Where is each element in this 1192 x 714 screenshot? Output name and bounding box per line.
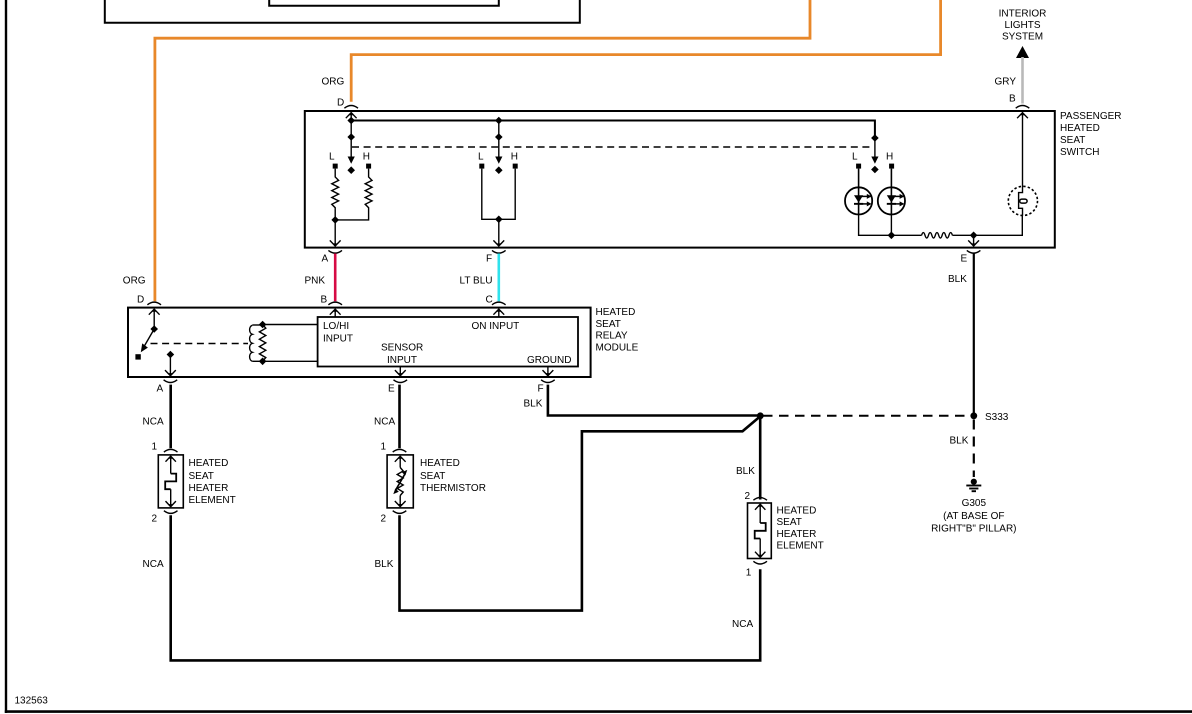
pin D entry arrow [346, 113, 357, 119]
relay switch common diamond [150, 325, 158, 333]
svg-text:HEATED: HEATED [777, 505, 817, 516]
svg-text:ORG: ORG [123, 276, 146, 287]
svg-text:BLK: BLK [736, 466, 755, 477]
connector arc pin B switch [1016, 106, 1030, 109]
wire NCA relay A to element1 [169, 385, 172, 449]
svg-text:B: B [321, 295, 328, 306]
splice S333 dot [970, 412, 977, 419]
svg-text:BLK: BLK [524, 399, 543, 410]
wire BLK thermistor to junction [400, 416, 761, 610]
svg-text:L: L [852, 152, 858, 163]
fuse block inner box (cut off at top) [269, 0, 499, 6]
connector arc pin A relay [164, 380, 178, 383]
svg-text:H: H [886, 152, 893, 163]
svg-text:HEATED: HEATED [596, 307, 636, 318]
wire NCA relay E to thermistor [398, 385, 401, 449]
LED indicator HI [878, 187, 905, 214]
internal bus wire [351, 121, 875, 139]
pin C relay entry arrow [493, 309, 504, 315]
relay switch blade [144, 329, 154, 347]
connector arc pin E relay [394, 380, 408, 383]
svg-text:G305: G305 [962, 498, 987, 509]
fuse block outer box (cut off at top) [105, 0, 580, 23]
connector arc pin C relay [492, 302, 506, 305]
resistor LO switch1 [332, 169, 339, 220]
svg-text:2: 2 [381, 514, 387, 525]
svg-text:L: L [478, 152, 484, 163]
svg-text:SENSOR: SENSOR [381, 343, 423, 354]
svg-text:SEAT: SEAT [189, 471, 214, 482]
junction diamond bus 1 [347, 117, 355, 125]
passenger heated seat switch box [305, 111, 1055, 248]
svg-text:1: 1 [152, 442, 158, 453]
switch 3 wiper [874, 121, 876, 162]
lamp to pin B wire + arrow [1022, 113, 1024, 187]
pin F relay exit arrow [547, 367, 549, 376]
thermistor internal symbol [395, 456, 406, 462]
svg-text:PNK: PNK [305, 276, 326, 287]
switch 1 wiper [350, 121, 352, 162]
svg-text:SEAT: SEAT [596, 319, 621, 330]
svg-text:RIGHT"B" PILLAR): RIGHT"B" PILLAR) [931, 523, 1016, 534]
switch3 join wires [859, 215, 922, 236]
switch2 L/H join wires [482, 169, 515, 220]
connector arc element2 pin2 [753, 498, 767, 501]
svg-text:NCA: NCA [374, 417, 395, 428]
svg-text:ELEMENT: ELEMENT [777, 541, 824, 552]
relay contact to pin A [167, 351, 175, 359]
connector arc pin D relay [147, 302, 161, 305]
svg-text:NCA: NCA [143, 417, 164, 428]
connector arc pin A switch [328, 250, 342, 253]
svg-text:SEAT: SEAT [777, 517, 802, 528]
svg-text:D: D [337, 98, 344, 109]
svg-text:BLK: BLK [948, 274, 967, 285]
wire ORG from fuse block to relay module pin D [155, 0, 810, 301]
contact H switch2 [513, 164, 518, 169]
contact L switch1 [333, 164, 338, 169]
switch1 output wire + exit arrow [334, 220, 336, 246]
wire GRY [1021, 57, 1024, 104]
svg-text:GROUND: GROUND [527, 355, 571, 366]
svg-text:1: 1 [381, 442, 387, 453]
contact H switch1 [366, 164, 371, 169]
svg-text:LO/HI: LO/HI [323, 321, 349, 332]
relay dashed link [151, 343, 249, 345]
resistor switch3 [922, 233, 953, 238]
svg-text:LT BLU: LT BLU [460, 276, 493, 287]
svg-text:INPUT: INPUT [387, 355, 417, 366]
svg-text:GRY: GRY [995, 77, 1017, 88]
heated seat relay module outer box [128, 308, 591, 377]
svg-text:LIGHTS: LIGHTS [1004, 20, 1040, 31]
connector arc pin F relay [541, 380, 555, 383]
resistor HI switch1 [335, 169, 372, 220]
svg-text:F: F [538, 384, 544, 395]
relay coil [250, 325, 253, 361]
wire NCA element1 to element2 [171, 515, 761, 660]
svg-text:INPUT: INPUT [323, 334, 353, 345]
svg-text:THERMISTOR: THERMISTOR [420, 483, 486, 494]
svg-text:2: 2 [152, 514, 158, 525]
pin D relay entry arrow [149, 309, 160, 315]
connector arc thermistor pin2 [393, 511, 407, 514]
svg-text:H: H [363, 152, 370, 163]
switch 2 wiper [498, 121, 500, 162]
element2 internal symbol [755, 504, 765, 510]
junction diamond switch3 [888, 232, 896, 240]
pin B relay entry arrow [330, 309, 341, 315]
ground G305 symbol [971, 479, 977, 485]
LED indicator LO [845, 187, 872, 214]
pin E relay exit arrow [399, 367, 401, 376]
junction dot left [757, 412, 764, 419]
svg-text:ELEMENT: ELEMENT [189, 495, 236, 506]
svg-text:BLK: BLK [950, 436, 969, 447]
contact L switch2 [479, 164, 484, 169]
svg-text:SWITCH: SWITCH [1060, 147, 1099, 158]
coil top diamond + wire to inner box [259, 321, 267, 329]
connector arc thermistor pin1 [393, 449, 407, 452]
svg-text:PASSENGER: PASSENGER [1060, 111, 1122, 122]
svg-text:NCA: NCA [732, 619, 753, 630]
junction diamond switch1 out [331, 216, 339, 224]
dashed wire junction to S333 [763, 415, 970, 417]
illumination lamp [1008, 186, 1037, 215]
connector arc element1 pin2 [164, 511, 178, 514]
svg-text:E: E [961, 254, 968, 265]
svg-text:MODULE: MODULE [596, 343, 639, 354]
junction diamond pin E [970, 232, 978, 240]
svg-text:L: L [329, 152, 335, 163]
heated seat heater element 2 box [748, 503, 772, 559]
wire PNK [334, 254, 337, 302]
connector arc pin B relay [328, 302, 342, 305]
svg-text:SEAT: SEAT [1060, 135, 1085, 146]
junction diamond switch2 out [495, 216, 503, 224]
wire ORG from fuse block to switch pin D [351, 0, 940, 102]
svg-text:BLK: BLK [375, 559, 394, 570]
connector arc element2 pin1 [753, 561, 767, 564]
svg-text:F: F [486, 254, 492, 265]
coil bottom diamond + wire to inner box [259, 358, 267, 366]
svg-text:NCA: NCA [143, 559, 164, 570]
connector arc pin D switch [344, 106, 358, 109]
svg-text:HEATED: HEATED [189, 458, 229, 469]
dashed wire BLK S333 to ground [973, 420, 975, 478]
connector arc pin E switch [967, 250, 981, 253]
svg-text:HEATER: HEATER [189, 483, 229, 494]
connector arc pin F switch [492, 250, 506, 253]
svg-text:SEAT: SEAT [420, 471, 445, 482]
svg-text:SYSTEM: SYSTEM [1002, 32, 1043, 43]
element1 internal symbol [166, 456, 176, 462]
junction diamond bus 2 [495, 117, 503, 125]
dashed switch link [352, 146, 872, 148]
svg-text:S333: S333 [985, 412, 1009, 423]
switch2 output wire + exit arrow [498, 219, 500, 246]
wire LT BLU [497, 254, 500, 302]
heated seat heater element 1 box [158, 455, 183, 508]
svg-text:1: 1 [746, 567, 752, 578]
svg-text:2: 2 [745, 491, 751, 502]
svg-text:D: D [137, 295, 144, 306]
svg-text:INTERIOR: INTERIOR [999, 9, 1047, 20]
svg-text:E: E [388, 384, 395, 395]
svg-text:HEATED: HEATED [420, 458, 460, 469]
svg-text:A: A [322, 254, 329, 265]
svg-text:B: B [1009, 94, 1016, 105]
off-page arrow to interior lights [1016, 46, 1029, 58]
svg-text:132563: 132563 [15, 696, 49, 707]
svg-text:A: A [157, 384, 164, 395]
relay switch open contact square [135, 354, 140, 359]
svg-text:(AT BASE OF: (AT BASE OF [943, 511, 1004, 522]
svg-text:H: H [511, 152, 518, 163]
contact H switch3 [889, 164, 894, 169]
page left border [5, 0, 7, 713]
wire BLK relay F to junction [548, 385, 760, 416]
page bottom border [5, 710, 1192, 713]
svg-text:HEATED: HEATED [1060, 123, 1100, 134]
wire BLK junction to element2 [759, 416, 762, 500]
svg-text:ON INPUT: ON INPUT [472, 321, 520, 332]
wire resistor to lamp [952, 216, 1022, 236]
heated seat thermistor box [387, 455, 413, 508]
wire BLK switch E to S333 [973, 253, 975, 416]
contact L switch3 [856, 164, 861, 169]
svg-text:ORG: ORG [322, 77, 345, 88]
heated seat relay module inner box [318, 317, 578, 367]
connector arc element1 pin1 [164, 449, 178, 452]
pin E exit arrow [973, 235, 975, 246]
svg-text:C: C [486, 295, 493, 306]
svg-text:RELAY: RELAY [596, 331, 628, 342]
svg-text:HEATER: HEATER [777, 529, 817, 540]
